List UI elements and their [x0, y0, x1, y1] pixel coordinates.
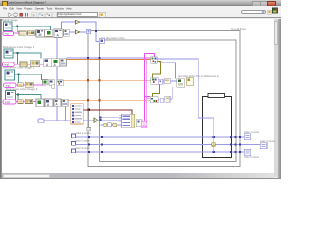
blue wires row2 cluster [158, 87, 172, 100]
diagram svg overlay [0, 0, 281, 179]
row 3 vi icon 1 (green) [43, 80, 49, 85]
row 3 IMAQ image terminal [5, 70, 15, 80]
violet wire row1 upper [61, 22, 96, 30]
search box [241, 10, 267, 14]
count indicator 2 [244, 149, 251, 155]
row 3 tunnel at loop B [98, 79, 100, 81]
increment icon in frame [212, 143, 215, 146]
right window frame [278, 19, 281, 180]
for loop A (For all lines) [88, 31, 240, 167]
row 4 colorbox icon 1 [18, 100, 24, 104]
minimize button [252, 1, 261, 7]
bottom window frame [0, 178, 281, 179]
toolbar pause button [25, 13, 28, 16]
row 3 junction [18, 74, 20, 76]
font selector box [57, 12, 98, 17]
toolbar help icon [100, 12, 106, 17]
row 1 vi icon B (green) [45, 30, 53, 37]
svg-text:Img: Img [5, 33, 10, 36]
row 2 colorbox icon 2 [30, 61, 39, 67]
row 2 vi icon 1 [44, 59, 52, 67]
app icon [2, 1, 8, 7]
row 2 vi icon 3 [60, 59, 66, 66]
compare row 2 color vi icon [150, 97, 158, 103]
row 4 teal wire [16, 95, 42, 99]
svg-text:color 1 count: color 1 count [244, 130, 259, 134]
count terminal 2 [72, 142, 76, 146]
olive path wire zigzag 2 [152, 84, 159, 97]
svg-text:Reference Color Image 1: Reference Color Image 1 [3, 45, 35, 49]
svg-text:Img3: Img3 [5, 101, 11, 104]
toolbar distribute icon [46, 13, 52, 18]
row 1 IMAQ vi icon A [36, 29, 44, 37]
violet wire into loop B [96, 31, 100, 42]
title text [7, 1, 77, 4]
h scrollbar thumb [3, 174, 50, 178]
row 3 teal branch [19, 74, 21, 85]
row 1 IMAQ image terminal [4, 22, 13, 31]
count wire 3 [76, 151, 245, 153]
svg-text:For all pixels in line: For all pixels in line [101, 36, 125, 40]
row 4 vi icon 2 [45, 99, 53, 107]
cluster wire (dark red) [83, 110, 131, 114]
loop A tunnel junction [95, 30, 97, 32]
round icon 1 [103, 123, 107, 127]
menu bar [0, 6, 281, 12]
blue wire right to frame [157, 59, 202, 118]
IMAQ dispose vi (bottom left) [38, 119, 44, 123]
row 4 image constant (pink) [3, 100, 16, 104]
toolbar run-continuous button [14, 13, 18, 17]
toolbar help button [267, 10, 271, 14]
svg-text:color 3 count: color 3 count [75, 146, 90, 150]
toolbar reorder icon [52, 13, 57, 17]
row 4 pink wire [16, 101, 36, 103]
flat sequence frame tab [208, 94, 225, 98]
convert triangle upper [76, 20, 80, 24]
wires into bundle node [117, 116, 122, 125]
row 1 wire junction [16, 25, 18, 27]
frame wire vertical [213, 118, 215, 152]
svg-text:9: 9 [33, 13, 35, 17]
olive path wire zigzag [153, 62, 161, 78]
row 4 colorbox icon 2 [25, 99, 33, 103]
array size vi icon [136, 120, 142, 127]
in range box [158, 79, 163, 84]
unbundle icon [87, 128, 91, 131]
svg-text:Reference Color Image 2: Reference Color Image 2 [3, 66, 35, 70]
cluster wire branch down [88, 110, 90, 128]
ROI cluster constant listbox [71, 104, 84, 124]
add triangle [94, 118, 98, 122]
row 2 orange number wire out [67, 59, 151, 61]
count terminal 1 [72, 134, 76, 138]
toolbar labview icon [272, 8, 278, 13]
close button [267, 1, 276, 7]
row 4 orange number wire out [68, 99, 150, 101]
image daisy-chain wire [56, 38, 58, 121]
row 2 tunnel at loop A [87, 57, 89, 59]
count indicator 1 [244, 134, 251, 140]
svg-text:For all lines: For all lines [232, 27, 247, 31]
row 2 teal branch [18, 53, 21, 64]
percent constant box 2 [165, 96, 170, 102]
toolbar abort button [20, 13, 23, 16]
pink cluster wire loop [145, 54, 155, 122]
v scrollbar thumb [274, 21, 278, 46]
row 3 vi icon 2 [49, 80, 54, 86]
violet wire row1 lower [69, 31, 86, 33]
row 3 vi icon 3 (color) [57, 80, 63, 86]
row 1 teal wire to icons [12, 26, 51, 29]
row 4 vi icon 1 (green) [36, 99, 44, 107]
triangle output wire [98, 119, 122, 121]
flat sequence frame [203, 96, 232, 157]
cluster wire junction [88, 109, 90, 111]
v scrollbar track [274, 19, 279, 178]
wire junction dots [100, 116, 102, 118]
row 2 pink wire [14, 63, 44, 65]
row 4 tunnel at loop B [98, 99, 100, 101]
for loop B (For all pixels in line) [100, 40, 237, 162]
loop A indexing tunnel icon [86, 29, 91, 34]
bottom pink cluster const [141, 121, 147, 127]
maximize button [260, 1, 269, 7]
row 3 teal wire [15, 74, 42, 80]
tunnels loop B right [234, 136, 236, 138]
select2 vi icon [186, 78, 193, 86]
title bar [0, 0, 281, 6]
pink wire stubs into icon [145, 97, 151, 99]
count indicator 3 [260, 143, 267, 149]
row 1 pink wire [14, 32, 37, 34]
h scrollbar track [2, 173, 274, 177]
bundle-by-name node [122, 114, 135, 127]
and vi icon [177, 79, 185, 88]
round icon 2 [108, 123, 111, 127]
toolbar run button [9, 13, 13, 17]
row 2 tunnel at loop B [98, 57, 100, 59]
svg-text:color 2 count: color 2 count [75, 139, 90, 143]
dispose wire [44, 106, 71, 120]
tunnels loop A right [239, 136, 241, 138]
row 4 vi icon 3 [54, 99, 61, 106]
violet wire from listbox [83, 119, 94, 121]
tunnels loop B left [101, 136, 103, 138]
percent constant box [164, 78, 170, 83]
toolbar align icon [39, 13, 45, 18]
convert triangle lower [76, 30, 80, 34]
olive mini icon [113, 123, 117, 127]
shift registers loop A [88, 136, 90, 138]
color compare vi icon [151, 57, 158, 64]
row 2 IMAQ image terminal [4, 49, 13, 58]
row 2 junction [17, 52, 19, 54]
row 3 orange number wire out [63, 79, 151, 81]
svg-text:get color within 5% on Referen: get color within 5% on Reference pi [178, 74, 219, 78]
wire to and [163, 80, 177, 82]
row 4 junction [17, 94, 19, 96]
compare row color vi icon [151, 78, 158, 85]
row 4 tunnel at loop A [87, 99, 89, 101]
search magnifier icon [262, 11, 264, 13]
left window frame [0, 19, 2, 180]
row 2 image constant (pink) [3, 62, 15, 66]
frame wire junctions [213, 136, 215, 138]
in range box 2 [160, 98, 164, 102]
row 3 colorbox icon 1 [18, 83, 24, 87]
toolbar text-settings icon [32, 13, 37, 17]
row 1 IMAQ vi icon C [54, 29, 62, 38]
row 4 violet image wire out [64, 106, 66, 120]
row 1 vi icon D [64, 29, 70, 36]
canvas [2, 19, 274, 174]
row 3 image constant (pink) [4, 83, 16, 87]
row 1 colorbox icon 2 [28, 31, 36, 36]
blue wire down [159, 63, 176, 79]
count wire 2 [76, 144, 261, 146]
row 4 vi icon 4 [62, 99, 68, 106]
upper wire [101, 116, 122, 118]
row 3 tunnel at loop A [87, 79, 89, 81]
row 2 teal wire [13, 53, 41, 59]
row 4 IMAQ image terminal [6, 91, 16, 101]
row 2 violet image wire out [67, 57, 151, 59]
svg-text:color 1 count: color 1 count [76, 131, 91, 135]
svg-text:color 3 count: color 3 count [260, 139, 275, 143]
row 3 colorbox icon 2 [25, 82, 33, 87]
loop B count terminal N [99, 38, 104, 44]
tunnels black frame [230, 136, 232, 138]
count terminal 3 [72, 149, 76, 153]
row 1 teal wire branch down [17, 26, 19, 32]
toolbar [0, 12, 281, 19]
row 2 colorbox icon 1 [20, 62, 27, 67]
lower wire [101, 124, 122, 126]
row 4 teal branch [18, 95, 19, 102]
row 3 pink wire [16, 84, 46, 86]
row 1 colorbox icon 1 [19, 31, 26, 35]
row 2 vi icon 2 (green) [52, 59, 60, 67]
row 1 image constant (pink) [3, 31, 14, 35]
count wire 1 [76, 136, 245, 138]
